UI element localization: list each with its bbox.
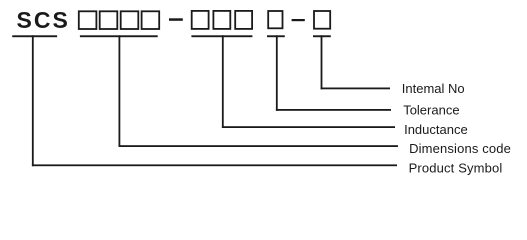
bracket bar under SCS (12, 35, 57, 37)
svg-text:Product Symbol: Product Symbol (409, 161, 503, 176)
wire stem from group B (222, 35, 224, 128)
svg-text:Tolerance: Tolerance (403, 103, 459, 118)
box D1 (internal no) (314, 11, 330, 29)
svg-text:SCS: SCS (17, 7, 70, 33)
box A2 (dimensions code digit 2) (100, 11, 118, 29)
dash separator 1 (169, 18, 183, 21)
wire stem from box D1 (321, 35, 323, 89)
box A3 (dimensions code digit 3) (121, 11, 139, 29)
box B3 (inductance digit 3) (235, 11, 252, 29)
box A4 (dimensions code digit 4) (142, 11, 160, 29)
wire to Product Symbol label (32, 164, 397, 166)
box B1 (inductance digit 1) (192, 11, 209, 29)
bracket bar under box group A (80, 35, 158, 37)
box C1 (tolerance) (268, 11, 282, 28)
bracket bar under box D1 (313, 35, 331, 37)
wire stem from box C1 (276, 35, 278, 111)
wire stem from group A (119, 35, 121, 147)
svg-text:Inductance: Inductance (404, 122, 468, 137)
svg-text:Dimensions code: Dimensions code (409, 141, 511, 156)
box B2 (inductance digit 2) (213, 11, 230, 29)
wire to Internal No label (321, 88, 390, 90)
wire stem from SCS (32, 35, 34, 166)
bracket bar under box C1 (267, 35, 285, 37)
wire to Dimensions code label (119, 145, 399, 147)
bracket bar under box group B (191, 35, 252, 37)
wire to Tolerance label (276, 109, 391, 111)
dash separator 2 (292, 19, 305, 21)
wire to Inductance label (222, 126, 395, 128)
svg-text:Intemal No: Intemal No (402, 81, 465, 96)
box A1 (dimensions code digit 1) (79, 11, 97, 29)
